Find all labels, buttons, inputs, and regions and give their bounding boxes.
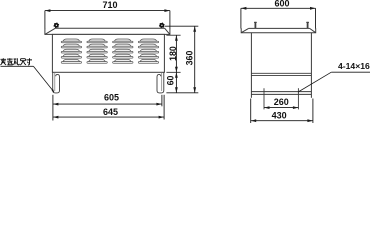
screw right <box>159 22 165 28</box>
label 4-14x16 leader <box>298 72 370 92</box>
stud left <box>254 22 257 29</box>
dim 60 <box>175 72 178 93</box>
foot left <box>53 72 60 93</box>
svg-text:360: 360 <box>185 51 195 66</box>
dim 180 <box>175 35 177 72</box>
base flange <box>251 92 311 95</box>
svg-text:60: 60 <box>165 76 175 86</box>
slot tick left <box>263 88 265 109</box>
char an <box>0 58 6 65</box>
body front view <box>52 34 164 72</box>
svg-text:645: 645 <box>103 107 118 117</box>
char chi <box>20 59 26 65</box>
right-side extension lines <box>165 26 199 93</box>
dim 260 <box>264 107 298 109</box>
svg-text:600: 600 <box>274 0 289 9</box>
leader arrowhead <box>52 89 55 92</box>
louver grid 4x5 <box>61 39 159 63</box>
char zhuang <box>7 58 13 65</box>
dim 645 <box>53 95 164 120</box>
svg-text:710: 710 <box>102 0 117 10</box>
svg-text:4-14×16: 4-14×16 <box>338 61 370 71</box>
seam lines <box>251 73 311 75</box>
lid front view <box>45 28 170 34</box>
svg-text:605: 605 <box>104 93 119 103</box>
dim 605 <box>53 95 162 121</box>
lid side view <box>241 28 316 32</box>
foot right <box>157 72 164 93</box>
char cun <box>26 58 32 65</box>
svg-text:180: 180 <box>168 46 178 61</box>
screw left <box>53 22 59 28</box>
label mounting-hole (Chinese) strokes <box>0 58 32 65</box>
slot tick right <box>297 88 299 109</box>
label leader line <box>1 66 55 92</box>
louver column 3 <box>113 39 133 63</box>
louver column 4 <box>138 39 158 63</box>
dim 710 line <box>45 11 170 29</box>
dim 600 <box>241 8 316 28</box>
svg-text:260: 260 <box>274 97 289 107</box>
louver column 2 <box>87 39 107 63</box>
dim 710 arrows <box>45 9 170 12</box>
louver column 1 <box>61 39 81 63</box>
dim 430 <box>251 99 313 124</box>
svg-text:430: 430 <box>272 110 287 120</box>
char kong <box>14 58 20 65</box>
dim 360 <box>194 26 196 93</box>
stud right <box>306 22 309 29</box>
body side view <box>251 33 311 98</box>
